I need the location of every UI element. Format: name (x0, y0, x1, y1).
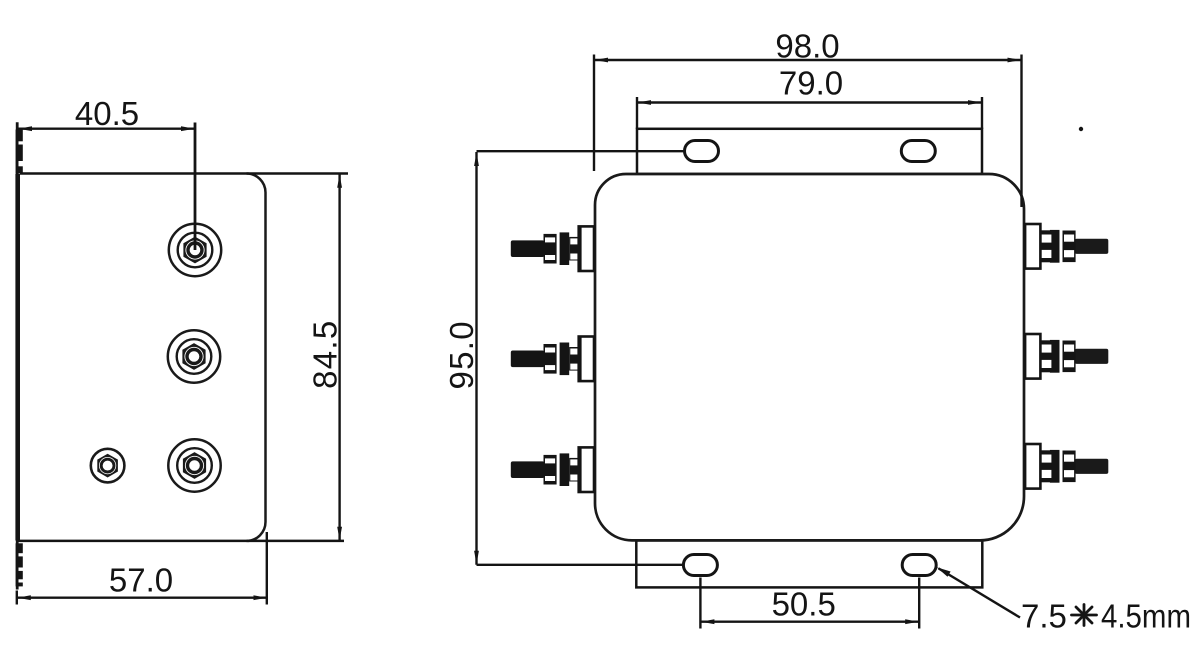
body bottom edge extension line (to 84.5 dim) (17, 540, 344, 543)
svg-text:98.0: 98.0 (775, 28, 839, 65)
top flange slot left (685, 141, 719, 162)
svg-text:40.5: 40.5 (75, 95, 139, 132)
bottom flange slot right (902, 555, 936, 576)
terminal R2 (1025, 334, 1108, 379)
terminal L3 (511, 447, 594, 492)
dimension 57.0 line (17, 595, 268, 600)
dimension 50.5 line (700, 619, 919, 624)
terminal R3 (1025, 444, 1108, 489)
dimension 57.0 left extension tick (16, 591, 18, 605)
stray dot (1079, 127, 1083, 131)
slot size text 7.5*4.5mm (1021, 598, 1191, 635)
body (left view) (20, 174, 266, 541)
body (top view) (595, 174, 1024, 540)
dimension 57.0 right extension line (body edge extended) (266, 532, 268, 605)
svg-text:50.5: 50.5 (772, 585, 836, 622)
bottom flange slot left (683, 555, 717, 576)
terminal L1 (511, 226, 594, 271)
bottom mounting flange (636, 540, 982, 587)
dimension 98.0 left extension line (593, 55, 595, 172)
dimension 84.5 line (337, 174, 342, 541)
dimension 79.0 left extension line (636, 97, 638, 129)
top flange slot right (901, 141, 935, 162)
dimension 79.0 right extension line (981, 97, 983, 129)
top mounting flange (637, 129, 982, 174)
plate bottom tab slot (dashed hidden line) (16, 543, 24, 586)
terminal stud A (top, left view) (169, 224, 221, 276)
dimension 95.0 line (474, 152, 479, 565)
svg-text:79.0: 79.0 (779, 65, 843, 102)
terminal stud D (small, bottom left, left view) (91, 449, 125, 483)
dimension 40.5 line (18, 126, 195, 131)
terminal R1 (1025, 224, 1108, 269)
svg-text:4.5mm: 4.5mm (1101, 598, 1191, 635)
dimension 79.0 line (637, 100, 982, 105)
svg-text:7.5: 7.5 (1021, 598, 1067, 635)
terminal L2 (511, 337, 594, 382)
dimension 98.0 right extension line (1020, 55, 1022, 208)
terminal stud B (middle, left view) (168, 330, 220, 382)
dimension 95.0 bottom extension line (477, 564, 691, 566)
dimension 95.0 top extension line (477, 150, 691, 152)
svg-text:95.0: 95.0 (443, 320, 480, 389)
dimension 40.5 extension line to terminal A center (194, 123, 197, 251)
dimension 50.5 right extension line (918, 578, 920, 629)
svg-text:84.5: 84.5 (307, 319, 344, 388)
leader line for slot size (937, 567, 1020, 617)
plate top tab slot (dashed hidden line) (16, 130, 24, 174)
body top edge extension line (to 84.5 dim) (20, 172, 348, 175)
mounting plate edge-on (left vertical bar) (15, 122, 20, 589)
svg-text:57.0: 57.0 (109, 562, 173, 599)
dimension 50.5 left extension line (699, 578, 701, 629)
terminal stud C (bottom right, left view) (168, 439, 220, 491)
dimension 98.0 line (594, 58, 1022, 63)
